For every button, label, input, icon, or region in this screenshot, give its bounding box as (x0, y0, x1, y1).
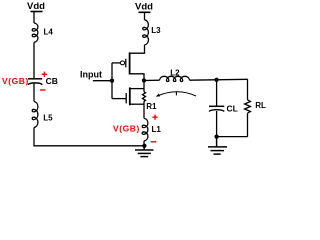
svg-text:L5: L5 (43, 114, 53, 123)
wire bottom right (CL to RL) (217, 136, 248, 138)
node: CL top junction (214, 78, 218, 82)
svg-text:V(GB): V(GB) (2, 76, 29, 86)
node: bottom ground junction (142, 144, 146, 148)
wire CL bottom (216, 111, 218, 137)
PMOS gate bar (125, 59, 127, 68)
wire output node to L2 (144, 79, 160, 81)
PMOS channel bar (129, 52, 131, 74)
svg-text:RL: RL (255, 101, 266, 110)
svg-text:Vdd: Vdd (27, 1, 45, 12)
svg-text:L2: L2 (170, 68, 180, 77)
power symbol Vdd (left) (31, 12, 43, 24)
inductor L1 (142, 118, 148, 141)
svg-text:L4: L4 (44, 28, 54, 37)
transistor Q2 (NMOS) (112, 87, 144, 105)
wire CB to L5 (33, 84, 35, 102)
ground (right) (208, 137, 227, 155)
NMOS gate bar (125, 93, 127, 103)
resistor R1 (143, 92, 146, 102)
wire input vertical (gate to gate) (111, 63, 113, 99)
wire NMOS gate (112, 98, 126, 100)
node: input junction (110, 79, 114, 83)
wire PMOS gate (112, 62, 120, 64)
inductor L3 (143, 20, 149, 45)
power symbol Vdd (right) (139, 12, 151, 19)
capacitor CB (28, 79, 43, 85)
inductor L4 (32, 23, 38, 42)
wire L1 to ground node (143, 141, 145, 146)
svg-text:CB: CB (46, 76, 58, 86)
wire NMOS source (130, 103, 144, 105)
NMOS channel bar (129, 87, 131, 105)
polarity plus (L1 top) (152, 115, 157, 120)
capacitor CL (209, 106, 224, 111)
wire R1 to L1 (143, 101, 145, 118)
wire L2 to RL (189, 78, 247, 81)
svg-text:Input: Input (80, 69, 102, 79)
resistor RL (245, 79, 251, 136)
wire NMOS drain (130, 88, 144, 90)
polarity plus (CB) (42, 72, 47, 77)
svg-text:CL: CL (227, 104, 238, 114)
wire output node to R1 (143, 81, 145, 92)
inductor L5 (32, 102, 38, 128)
svg-text:R1: R1 (146, 102, 157, 111)
wire input stub (93, 80, 112, 82)
label I (current) (175, 91, 177, 95)
polarity minus (L1 bottom) (151, 141, 157, 143)
wire L4 to CB (33, 42, 35, 78)
current arrow I (156, 92, 196, 97)
svg-text:L3: L3 (151, 26, 161, 35)
wire L3 to PMOS source (130, 45, 145, 53)
wire PMOS drain to output node (130, 74, 144, 81)
svg-text:Vdd: Vdd (135, 1, 153, 12)
polarity minus (CB) (40, 89, 46, 91)
node: CL bottom junction (214, 134, 218, 138)
svg-text:V(GB): V(GB) (113, 123, 140, 133)
node: output junction (142, 78, 146, 82)
svg-text:L1: L1 (152, 125, 162, 134)
transistor Q1 (PMOS) (112, 52, 144, 80)
ground (center) (135, 146, 154, 157)
inductor L2 (160, 76, 190, 81)
PMOS gate bubble (120, 61, 124, 65)
wire CL top (216, 80, 218, 106)
wire L5 to bottom ground rail (34, 128, 144, 146)
